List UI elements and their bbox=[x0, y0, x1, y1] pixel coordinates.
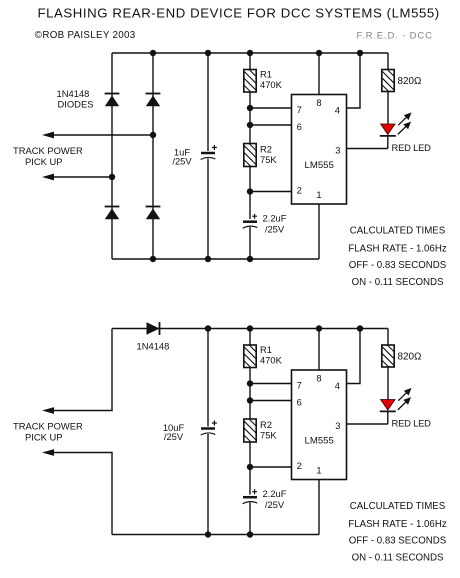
wire 820-ohm branch drop circuit A bbox=[387, 53, 389, 70]
svg-text:DIODES: DIODES bbox=[58, 99, 94, 110]
junction top rail / filter cap circuit A bbox=[205, 50, 211, 56]
svg-text:8: 8 bbox=[316, 97, 321, 108]
svg-text:470K: 470K bbox=[260, 79, 283, 90]
svg-text:7: 7 bbox=[297, 380, 302, 391]
svg-text:ON - 0.11 SECONDS: ON - 0.11 SECONDS bbox=[352, 553, 444, 564]
op-amp timer U1 LM555 circuit B bbox=[292, 370, 347, 480]
wire timing column circuit B bbox=[249, 329, 251, 495]
svg-text:/25V: /25V bbox=[265, 499, 285, 510]
wire C2 to bottom rail circuit A bbox=[249, 227, 251, 259]
junction top rail / pin 4 circuit A bbox=[357, 50, 363, 56]
wire top rail circuit A bbox=[112, 52, 388, 54]
wire pin 3 circuit A bbox=[347, 148, 388, 150]
junction bottom rail / filter cap circuit B bbox=[205, 531, 211, 537]
svg-text:F.R.E.D. - DCC: F.R.E.D. - DCC bbox=[357, 30, 433, 41]
wire bottom rail circuit B bbox=[112, 534, 319, 536]
svg-text:FLASHING REAR-END DEVICE FOR D: FLASHING REAR-END DEVICE FOR DCC SYSTEMS… bbox=[38, 6, 440, 21]
svg-text:CALCULATED TIMES: CALCULATED TIMES bbox=[350, 226, 446, 237]
svg-text:LM555: LM555 bbox=[305, 160, 334, 171]
capacitor C2 2.2uF/25V circuit A bbox=[243, 214, 258, 229]
svg-text:R2: R2 bbox=[260, 419, 272, 430]
svg-text:3: 3 bbox=[335, 144, 340, 155]
wire filter cap column lower circuit B bbox=[207, 434, 209, 535]
svg-text:1N4148: 1N4148 bbox=[57, 88, 90, 99]
diode D5 1N4148 series bbox=[147, 322, 160, 335]
wire pin 3 circuit B bbox=[347, 423, 388, 425]
LED light arrow 2 circuit A bbox=[398, 122, 411, 135]
wire pin 8 circuit A bbox=[318, 53, 320, 95]
resistor R2 75K circuit A bbox=[244, 144, 256, 167]
wire LED to pin 3 circuit A bbox=[387, 136, 389, 149]
wire 820 to LED circuit A bbox=[387, 92, 389, 125]
resistor R2 75K circuit B bbox=[244, 419, 256, 442]
svg-text:2: 2 bbox=[297, 460, 302, 471]
wire left vertical lower circuit B bbox=[111, 453, 113, 535]
junction pin6 node circuit B bbox=[247, 397, 253, 403]
svg-text:2.2uF: 2.2uF bbox=[263, 212, 287, 223]
svg-text:ON - 0.11 SECONDS: ON - 0.11 SECONDS bbox=[352, 277, 444, 288]
junction bottom rail / C2 circuit B bbox=[247, 531, 253, 537]
junction arrow 2 / column 1 bbox=[109, 174, 115, 180]
svg-text:LM555: LM555 bbox=[305, 435, 334, 446]
svg-text:6: 6 bbox=[297, 121, 302, 132]
wire pin 6 circuit B bbox=[250, 400, 292, 402]
svg-text:/25V: /25V bbox=[265, 223, 285, 234]
junction top rail / column 2 bbox=[150, 50, 156, 56]
svg-text:R2: R2 bbox=[260, 144, 272, 155]
svg-text:OFF - 0.83 SECONDS: OFF - 0.83 SECONDS bbox=[349, 535, 447, 546]
capacitor C2 2.2uF/25V circuit B bbox=[243, 489, 258, 504]
svg-text:TRACK POWER: TRACK POWER bbox=[13, 145, 83, 156]
junction top rail / R1 circuit B bbox=[247, 325, 253, 331]
junction pin6 node circuit A bbox=[247, 122, 253, 128]
svg-text:3: 3 bbox=[335, 420, 340, 431]
junction top rail / pin 8 circuit B bbox=[316, 325, 322, 331]
wire bottom rail circuit A bbox=[112, 258, 319, 260]
junction top rail / R1 circuit A bbox=[247, 50, 253, 56]
wire left vertical upper circuit B bbox=[111, 329, 113, 411]
junction R2/pin2 node circuit A bbox=[247, 188, 253, 194]
LED light arrow 1 circuit A bbox=[398, 112, 411, 125]
wire pin 7 circuit A bbox=[250, 107, 292, 109]
track power arrow 1 circuit B bbox=[42, 407, 113, 414]
wire pin 6 circuit A bbox=[250, 124, 292, 126]
wire filter cap column lower circuit A bbox=[207, 159, 209, 260]
junction bottom rail / C2 circuit A bbox=[247, 256, 253, 262]
diode D4 1N4148 bbox=[146, 207, 161, 220]
junction R2/pin2 node circuit B bbox=[247, 464, 253, 470]
svg-text:75K: 75K bbox=[260, 154, 277, 165]
resistor R3 820 ohm circuit A bbox=[382, 70, 394, 92]
svg-text:TRACK POWER: TRACK POWER bbox=[13, 421, 83, 432]
svg-text:820Ω: 820Ω bbox=[398, 76, 422, 87]
junction R1/pin7 node circuit A bbox=[247, 105, 253, 111]
wire pin 4 circuit B bbox=[347, 329, 361, 384]
wire timing column circuit A bbox=[249, 53, 251, 219]
svg-text:©ROB PAISLEY 2003: ©ROB PAISLEY 2003 bbox=[35, 30, 136, 41]
track power arrow 2 circuit A bbox=[42, 174, 112, 181]
svg-text:470K: 470K bbox=[260, 354, 283, 365]
junction top rail / pin 4 circuit B bbox=[357, 325, 363, 331]
wire pin 2 circuit A bbox=[250, 191, 292, 193]
LED D-LED red circuit A bbox=[380, 124, 396, 136]
svg-text:2: 2 bbox=[297, 185, 302, 196]
wire bridge column 2 bbox=[152, 53, 154, 259]
LED D-LED red circuit B bbox=[380, 400, 396, 412]
wire filter cap column upper circuit A bbox=[207, 53, 209, 151]
svg-text:R1: R1 bbox=[260, 344, 272, 355]
svg-text:2.2uF: 2.2uF bbox=[263, 488, 287, 499]
svg-text:FLASH RATE - 1.06Hz: FLASH RATE - 1.06Hz bbox=[348, 519, 446, 530]
svg-text:4: 4 bbox=[335, 380, 340, 391]
wire pin 1 circuit A bbox=[318, 204, 320, 259]
svg-text:CALCULATED TIMES: CALCULATED TIMES bbox=[350, 501, 446, 512]
svg-text:PICK UP: PICK UP bbox=[25, 431, 63, 442]
junction top rail / pin 8 circuit A bbox=[316, 50, 322, 56]
track power arrow 2 circuit B bbox=[42, 449, 113, 456]
wire pin 4 circuit A bbox=[347, 53, 361, 108]
svg-text:8: 8 bbox=[316, 373, 321, 384]
svg-text:PICK UP: PICK UP bbox=[25, 156, 63, 167]
LED light arrow 2 circuit B bbox=[398, 397, 411, 410]
svg-text:/25V: /25V bbox=[164, 431, 184, 442]
resistor R1 470K circuit B bbox=[244, 345, 256, 368]
diode D3 1N4148 bbox=[105, 207, 120, 220]
wire 820-ohm branch drop circuit B bbox=[387, 329, 389, 346]
svg-text:FLASH RATE - 1.06Hz: FLASH RATE - 1.06Hz bbox=[348, 243, 446, 254]
junction arrow 1 / column 2 bbox=[150, 132, 156, 138]
svg-text:1N4148: 1N4148 bbox=[137, 341, 170, 352]
svg-text:4: 4 bbox=[335, 104, 340, 115]
resistor R3 820 ohm circuit B bbox=[382, 345, 394, 367]
wire filter cap column upper circuit B bbox=[207, 329, 209, 427]
junction bottom rail / column 2 bbox=[150, 256, 156, 262]
wire pin 7 circuit B bbox=[250, 383, 292, 385]
svg-text:75K: 75K bbox=[260, 430, 277, 441]
LED light arrow 1 circuit B bbox=[398, 388, 411, 401]
resistor R1 470K circuit A bbox=[244, 70, 256, 93]
diode D1 1N4148 bbox=[105, 94, 120, 107]
capacitor C3 10uF/25V bbox=[201, 421, 217, 436]
svg-text:1: 1 bbox=[316, 464, 321, 475]
op-amp timer U1 LM555 circuit A bbox=[292, 95, 347, 205]
junction bottom rail / filter cap circuit A bbox=[205, 256, 211, 262]
svg-text:820Ω: 820Ω bbox=[398, 352, 422, 363]
wire bridge column 1 bbox=[111, 53, 113, 259]
svg-text:RED LED: RED LED bbox=[392, 142, 432, 153]
junction R1/pin7 node circuit B bbox=[247, 380, 253, 386]
svg-text:6: 6 bbox=[297, 396, 302, 407]
wire top rail circuit B bbox=[112, 328, 388, 330]
svg-text:1: 1 bbox=[316, 189, 321, 200]
svg-text:RED LED: RED LED bbox=[392, 418, 432, 429]
track power arrow 1 circuit A bbox=[42, 132, 153, 139]
capacitor C1 1uF/25V bbox=[201, 145, 217, 160]
wire pin 8 circuit B bbox=[318, 329, 320, 371]
wire LED to pin 3 circuit B bbox=[387, 411, 389, 424]
diode D2 1N4148 bbox=[146, 94, 161, 107]
wire pin 1 circuit B bbox=[318, 480, 320, 535]
wire 820 to LED circuit B bbox=[387, 367, 389, 400]
svg-text:7: 7 bbox=[297, 104, 302, 115]
svg-text:/25V: /25V bbox=[172, 156, 192, 167]
svg-text:R1: R1 bbox=[260, 68, 272, 79]
svg-text:OFF - 0.83 SECONDS: OFF - 0.83 SECONDS bbox=[349, 260, 447, 271]
junction top rail / filter cap circuit B bbox=[205, 325, 211, 331]
wire pin 2 circuit B bbox=[250, 466, 292, 468]
wire C2 to bottom rail circuit B bbox=[249, 503, 251, 535]
